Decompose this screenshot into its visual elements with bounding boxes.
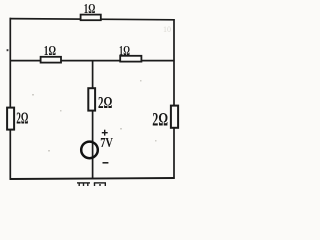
svg-text:2Ω: 2Ω [152, 109, 168, 130]
svg-text:2Ω: 2Ω [98, 93, 112, 112]
wire: middle horizontal [10, 60, 175, 62]
wire: center vertical branch [92, 61, 94, 179]
svg-text:1Ω: 1Ω [119, 44, 130, 59]
resistor 2Ω (left branch) [7, 108, 14, 130]
faint scan bleed-through marks [32, 25, 171, 152]
voltage source 7V (circle) [81, 142, 98, 159]
wire: left vertical [9, 18, 11, 180]
svg-text:2Ω: 2Ω [16, 108, 28, 127]
resistor 2Ω (center branch) [88, 88, 95, 110]
svg-text:1Ω: 1Ω [44, 44, 56, 59]
svg-text:1Ω: 1Ω [84, 2, 96, 17]
resistor 1Ω (top branch) [81, 15, 101, 21]
wire: right vertical [173, 19, 175, 179]
wire: bottom horizontal [10, 178, 175, 179]
resistor 1Ω (middle-left branch) [41, 57, 61, 63]
caption glyph fragment (left, cut off) [77, 183, 90, 186]
node speck (left, near middle wire) [7, 49, 9, 51]
wire: top horizontal [10, 19, 175, 20]
svg-text:10: 10 [163, 25, 171, 34]
polarity − mark [103, 162, 109, 164]
caption glyph fragment (right, cut off) [94, 183, 106, 186]
resistor 2Ω (right branch) [171, 106, 178, 128]
resistor 1Ω (middle-right branch) [120, 56, 141, 62]
svg-text:7V: 7V [100, 135, 113, 150]
polarity + mark [102, 130, 108, 136]
